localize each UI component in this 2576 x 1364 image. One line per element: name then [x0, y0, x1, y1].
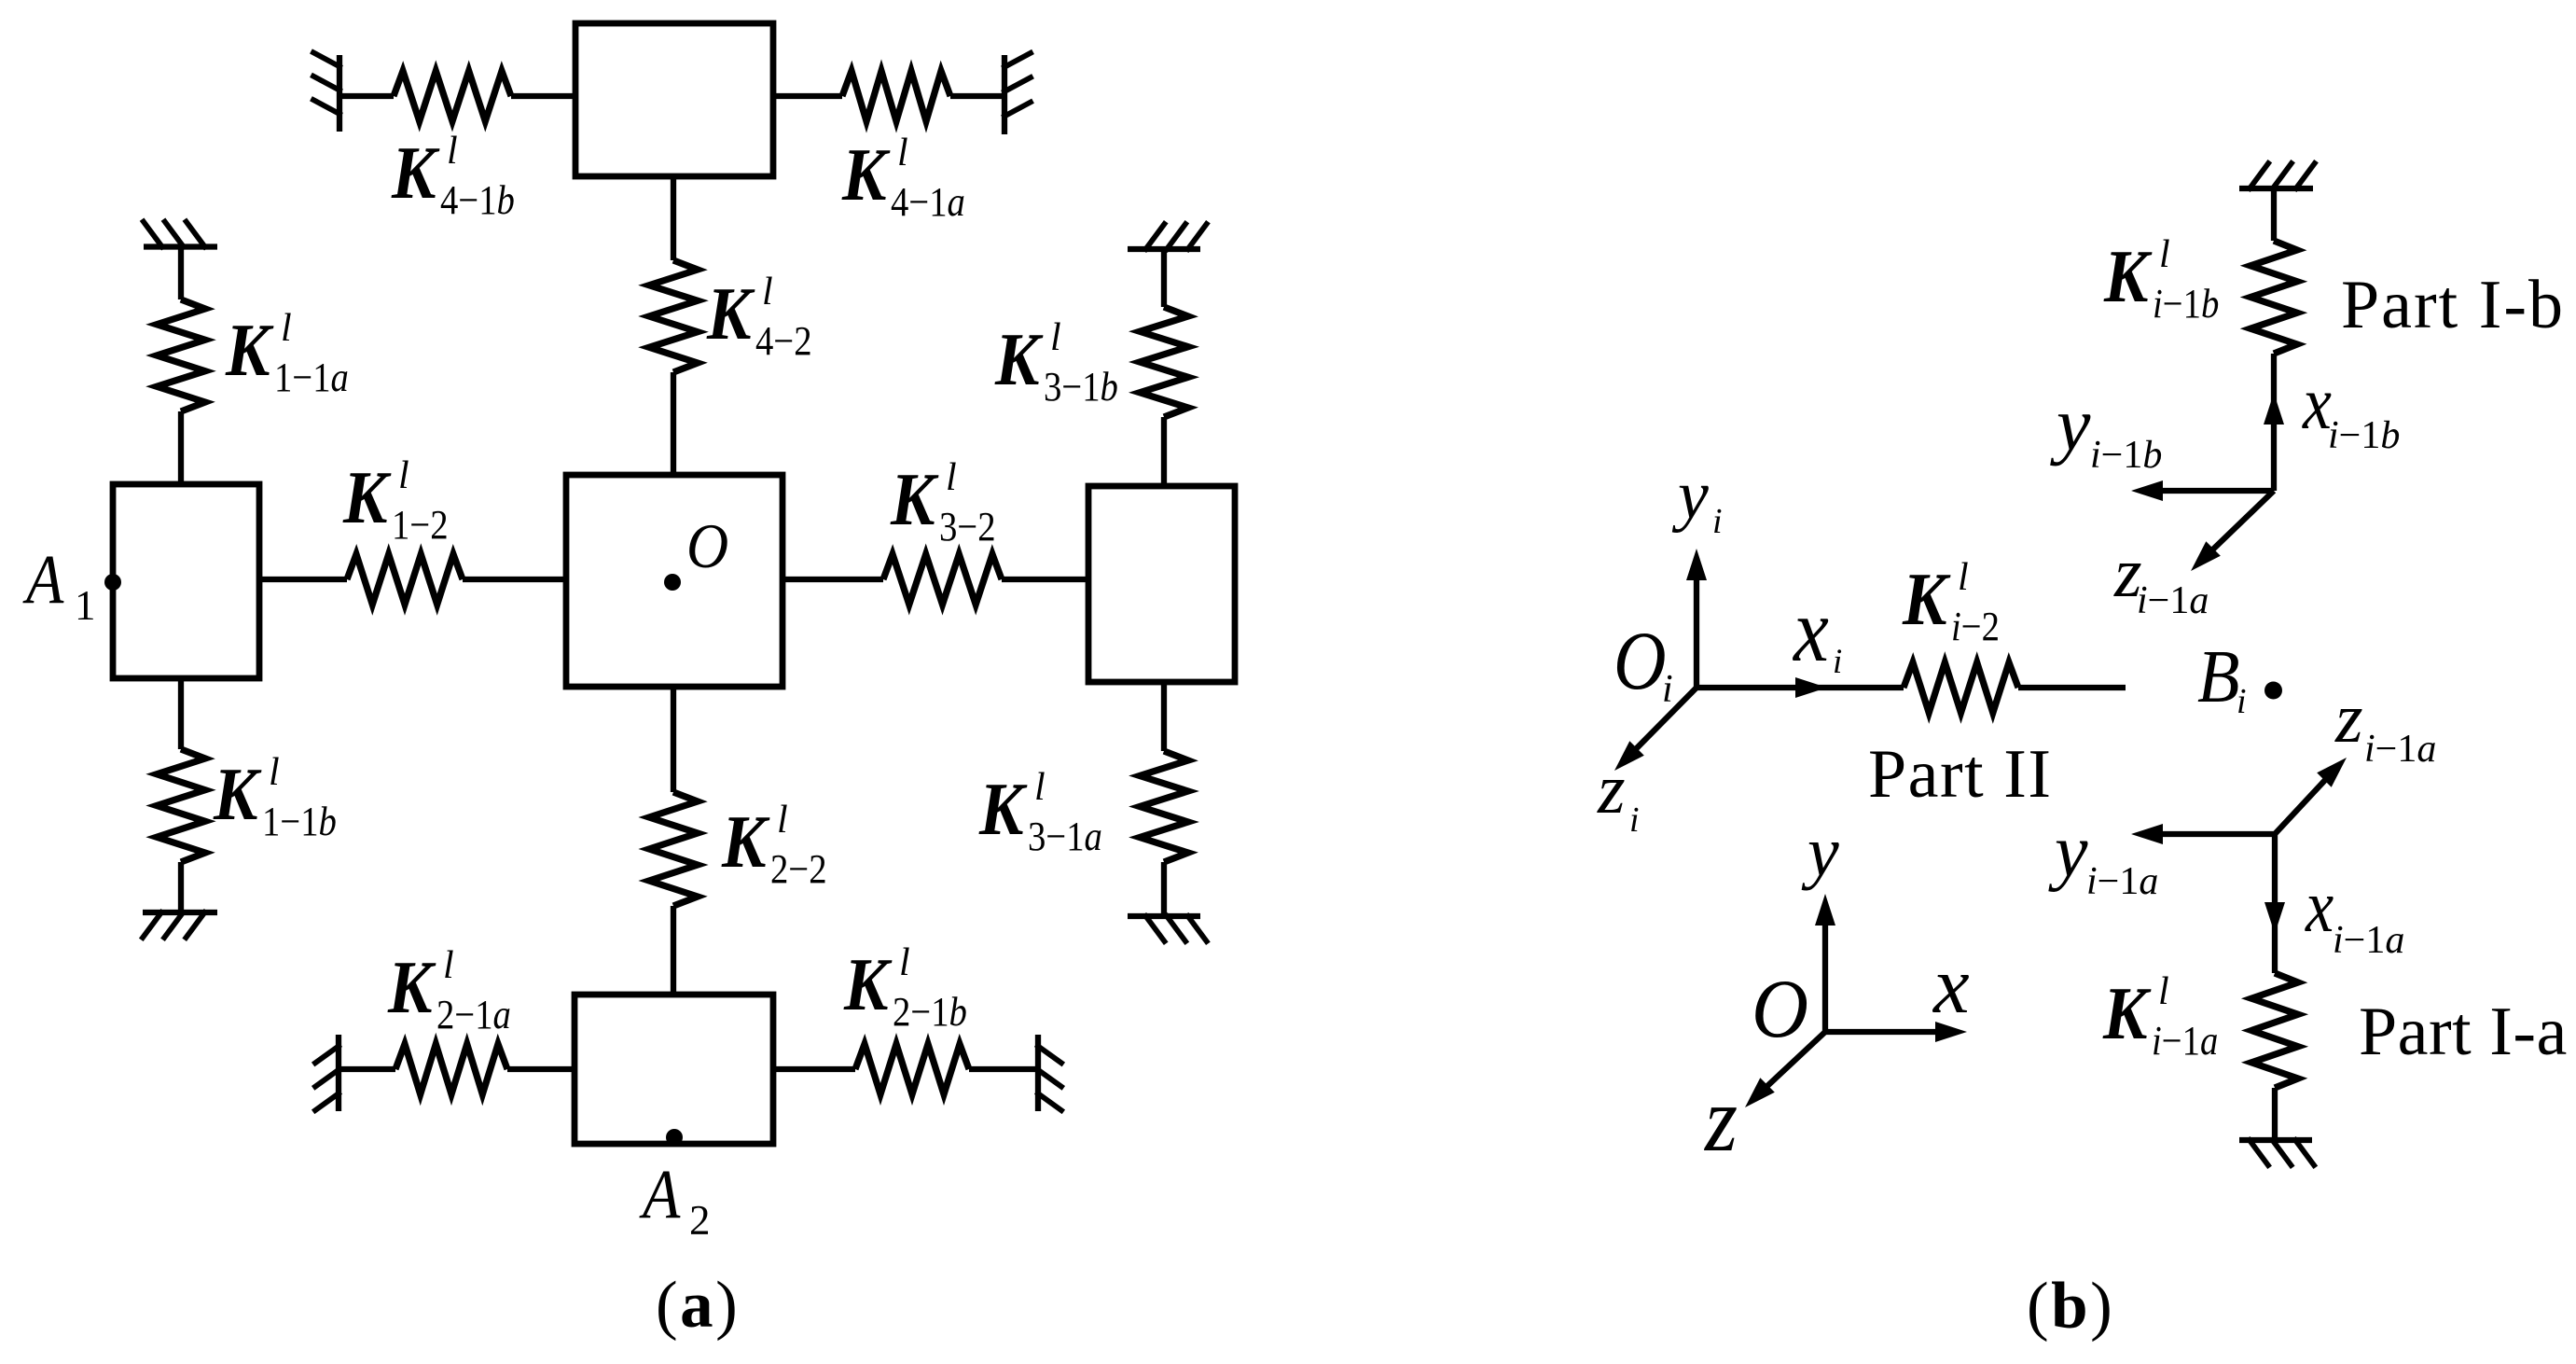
svg-text:1−1a: 1−1a: [274, 355, 349, 400]
svg-text:i: i: [1712, 502, 1723, 541]
ground wall (top-left): [313, 52, 339, 132]
spring Ki-1b: [2251, 241, 2297, 354]
wire block M1 to spring K1-1b: [178, 678, 184, 749]
wire block M4 to spring K4-1a: [773, 93, 842, 99]
wire spring K2-1a to block M2: [507, 1066, 575, 1072]
spring label K3-1b: [994, 316, 1118, 410]
svg-text:l: l: [281, 307, 292, 350]
svg-text:y: y: [1801, 813, 1839, 891]
spring Ki-2: [1904, 662, 2018, 713]
spring K2-1a: [395, 1044, 507, 1094]
axis z_i-1a label (frame I-a): [2334, 679, 2436, 771]
spring label K4-1a: [841, 132, 965, 225]
spring label K1-1b: [213, 751, 337, 844]
wire spring Ki-2 to Bi: [2018, 685, 2126, 690]
svg-text:y: y: [2050, 382, 2091, 466]
svg-text:l: l: [897, 132, 908, 174]
axis x_i-1b arrowhead (up): [2264, 393, 2284, 425]
wire spring Ki-1a to wall: [2272, 1088, 2278, 1140]
svg-text:x: x: [1792, 579, 1829, 681]
wire block M3 to spring K3-1a: [1161, 682, 1167, 751]
svg-text:K: K: [890, 457, 939, 541]
spring label K1-2: [342, 454, 448, 548]
svg-text:K: K: [2102, 971, 2152, 1055]
svg-text:O: O: [686, 512, 728, 582]
wire wall to spring K2-1a: [339, 1066, 395, 1072]
svg-text:Part I-b: Part I-b: [2341, 267, 2565, 343]
point O dot: [664, 574, 681, 591]
wire spring K2-2 to block M2: [671, 906, 676, 995]
spring K3-1a: [1140, 751, 1188, 862]
wire spring K4-2 to block M0: [671, 372, 676, 475]
svg-text:l: l: [2158, 970, 2169, 1013]
svg-text:2: 2: [689, 1197, 711, 1244]
svg-text:K: K: [978, 767, 1028, 851]
spring label K2-1b: [843, 941, 967, 1035]
svg-text:l: l: [2159, 233, 2170, 276]
svg-text:3−2: 3−2: [939, 504, 996, 550]
frame O z-axis arrow: [1753, 1032, 1825, 1099]
axis x_i-1b label: [2302, 361, 2400, 457]
wire block M1 to spring K1-2: [259, 577, 347, 582]
svg-text:(a): (a): [656, 1269, 740, 1342]
svg-text:K: K: [213, 752, 262, 836]
svg-text:l: l: [777, 799, 788, 842]
spring label Ki-1b: [2103, 233, 2219, 327]
svg-text:K: K: [1902, 557, 1951, 641]
spring label K4-2: [706, 271, 811, 364]
axis z_i-1a arrow (frame I-b): [2198, 491, 2274, 564]
svg-text:K: K: [843, 942, 893, 1026]
node A2 dot: [666, 1129, 683, 1146]
spring K1-1a: [157, 299, 205, 411]
frame Oi y-axis arrow: [1694, 578, 1699, 688]
axis y_i-1a label: [2048, 811, 2158, 903]
wire spring K1-2 to block M0: [463, 577, 566, 582]
svg-text:1: 1: [75, 582, 96, 629]
svg-text:i: i: [1833, 643, 1842, 681]
ground wall (left column top): [144, 222, 217, 247]
point Bi dot: [2264, 682, 2282, 700]
frame Oi x-axis wire: [1697, 685, 1904, 690]
svg-text:K: K: [994, 317, 1044, 401]
mass block M2 (bottom): [575, 995, 773, 1144]
spring label Ki-1a: [2102, 970, 2218, 1064]
axis y_i-1a arrow: [2140, 831, 2275, 837]
wire spring K4-1a to wall: [950, 93, 1004, 99]
svg-text:B: B: [2197, 634, 2240, 718]
svg-text:K: K: [391, 131, 440, 215]
svg-text:l: l: [899, 941, 910, 984]
svg-text:z: z: [1703, 1067, 1738, 1171]
svg-text:2−1a: 2−1a: [436, 992, 511, 1037]
wire wall to spring K1-1a: [178, 247, 184, 300]
frame O x-axis arrow: [1825, 1029, 1937, 1035]
wire block M2 to spring K2-1b: [773, 1066, 855, 1072]
svg-text:4−2: 4−2: [755, 318, 812, 364]
svg-text:O: O: [1752, 963, 1808, 1054]
svg-text:K: K: [706, 271, 755, 355]
svg-text:A: A: [22, 541, 64, 619]
svg-text:K: K: [225, 308, 274, 392]
svg-text:l: l: [269, 751, 280, 794]
svg-text:l: l: [447, 130, 458, 173]
svg-text:A: A: [639, 1156, 681, 1233]
svg-text:i: i: [2237, 682, 2247, 721]
svg-text:l: l: [443, 944, 454, 987]
ground wall (bottom-left): [315, 1035, 339, 1111]
node A1 dot: [104, 574, 121, 591]
svg-text:4−1a: 4−1a: [891, 179, 965, 225]
svg-text:2−1b: 2−1b: [893, 989, 967, 1035]
spring K3-2: [883, 554, 1002, 605]
spring K1-1b: [157, 749, 205, 862]
frame Oi label yi: [1671, 457, 1723, 541]
mass block M0 (central): [566, 475, 782, 687]
axis z_i-1a arrow (frame I-a): [2275, 765, 2339, 834]
mass block M4 (top): [575, 23, 773, 176]
spring K4-2: [649, 260, 698, 372]
wire block M0 to spring K2-2: [671, 687, 676, 792]
svg-text:i−1a: i−1a: [2152, 1018, 2218, 1064]
svg-text:3−1a: 3−1a: [1028, 814, 1102, 859]
axis x_i-1a label: [2305, 866, 2404, 962]
svg-text:K: K: [342, 455, 392, 539]
ground wall (right column bottom): [1128, 916, 1207, 941]
ground wall (left column bottom): [143, 912, 217, 938]
spring label K1-1a: [225, 307, 349, 400]
wire spring K3-1a to wall: [1161, 862, 1167, 916]
mass block M1 (left): [113, 484, 259, 678]
svg-text:i−1a: i−1a: [2333, 919, 2404, 962]
svg-text:l: l: [398, 454, 409, 497]
spring label K4-1b: [391, 130, 515, 223]
spring K4-1a: [842, 71, 950, 121]
svg-text:l: l: [1050, 316, 1061, 359]
ground wall (Part I-b top): [2239, 163, 2315, 188]
spring Ki-1a: [2251, 973, 2298, 1088]
mass block M3 (right): [1088, 486, 1235, 682]
axis x_i-1b wire (down from spring): [2271, 354, 2277, 491]
svg-text:i−1b: i−1b: [2153, 281, 2219, 327]
wire spring K1-1b to wall: [178, 862, 184, 912]
svg-text:i−2: i−2: [1951, 604, 2000, 649]
spring label K3-1a: [978, 766, 1102, 859]
spring K3-1b: [1140, 307, 1188, 417]
wire spring K1-1a to block M1: [178, 411, 184, 484]
spring K2-2: [649, 792, 698, 906]
spring label K3-2: [890, 456, 995, 550]
spring label K2-1a: [387, 944, 511, 1037]
wire wall to spring K4-1b: [339, 93, 394, 99]
wire spring K4-1b to block M4: [511, 93, 575, 99]
spring K4-1b: [394, 71, 511, 121]
svg-text:l: l: [762, 271, 773, 313]
frame O y-axis arrow: [1822, 924, 1828, 1032]
frame Oi z-axis arrow: [1623, 688, 1697, 762]
ground wall (Part I-a bottom): [2239, 1140, 2314, 1165]
svg-text:(b): (b): [2027, 1270, 2114, 1343]
svg-text:K: K: [841, 132, 891, 216]
svg-text:z: z: [1597, 750, 1626, 828]
wire spring K3-1b to block M3: [1161, 417, 1167, 486]
svg-text:x: x: [1932, 939, 1970, 1030]
origin Oi label: [1613, 615, 1673, 711]
ground wall (top-right): [1004, 53, 1031, 134]
svg-text:4−1b: 4−1b: [440, 177, 515, 223]
svg-text:Part II: Part II: [1868, 736, 2053, 813]
frame Oi label xi: [1792, 579, 1842, 681]
wire spring K2-1b to wall: [969, 1066, 1038, 1072]
spring label K2-2: [721, 799, 826, 892]
svg-text:O: O: [1613, 615, 1667, 707]
svg-text:Part I-a: Part I-a: [2359, 994, 2568, 1070]
svg-text:K: K: [387, 945, 436, 1029]
axis x_i-1a arrowhead (down): [2264, 902, 2285, 934]
axis x_i-1a wire (down): [2272, 834, 2278, 973]
axis y_i-1b arrow: [2140, 488, 2274, 494]
svg-text:3−1b: 3−1b: [1044, 364, 1118, 410]
axis z_i-1a label (frame I-b): [2113, 534, 2209, 622]
ground wall (bottom-right): [1038, 1035, 1061, 1111]
svg-text:i−1a: i−1a: [2086, 860, 2158, 903]
wire block M0 to spring K3-2: [782, 577, 883, 582]
wire wall to spring K3-1b: [1161, 249, 1167, 307]
svg-text:i−1b: i−1b: [2090, 434, 2162, 477]
svg-text:i: i: [1662, 668, 1673, 711]
wire spring K3-2 to block M3: [1002, 577, 1088, 582]
svg-text:l: l: [946, 456, 957, 499]
point Bi label: [2197, 634, 2247, 721]
frame Oi x-axis arrowhead: [1795, 677, 1827, 698]
spring K2-1b: [855, 1044, 969, 1094]
ground wall (right column top): [1128, 224, 1207, 249]
svg-text:z: z: [2334, 679, 2363, 758]
wire wall to spring Ki-1b: [2271, 188, 2277, 241]
spring K1-2: [347, 554, 463, 605]
svg-text:1−2: 1−2: [392, 502, 449, 548]
svg-text:i−1b: i−1b: [2328, 414, 2400, 457]
svg-text:1−1b: 1−1b: [262, 799, 337, 844]
frame Oi label zi: [1597, 750, 1640, 840]
wire block M4 to spring K4-2: [671, 176, 676, 260]
svg-text:y: y: [2048, 811, 2088, 893]
svg-text:x: x: [2305, 866, 2334, 948]
svg-text:i−1a: i−1a: [2137, 579, 2209, 622]
axis y_i-1b label: [2050, 382, 2162, 477]
svg-text:l: l: [1034, 766, 1046, 809]
svg-text:K: K: [2103, 234, 2153, 318]
svg-text:K: K: [721, 800, 770, 884]
svg-text:i: i: [1629, 800, 1640, 840]
svg-text:l: l: [1958, 556, 1969, 599]
svg-text:2−2: 2−2: [770, 846, 827, 892]
svg-text:i−1a: i−1a: [2364, 728, 2436, 771]
spring label Ki-2: [1902, 556, 2000, 649]
